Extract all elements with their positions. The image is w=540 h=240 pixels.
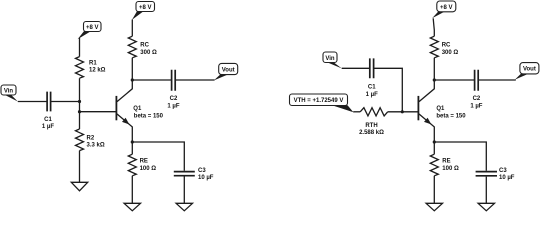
svg-text:1 µF: 1 µF [167,103,179,109]
svg-text:RE: RE [442,159,450,165]
svg-text:+8 V: +8 V [139,5,152,11]
svg-text:C3: C3 [198,168,206,174]
svg-text:Vout: Vout [523,67,536,73]
svg-text:R2: R2 [87,136,95,142]
svg-text:Vin: Vin [4,89,14,95]
svg-text:300 Ω: 300 Ω [140,50,157,56]
svg-text:VTH = +1.72549 V: VTH = +1.72549 V [294,98,344,104]
svg-text:10 µF: 10 µF [198,175,214,181]
svg-text:100 Ω: 100 Ω [442,166,459,172]
svg-text:RC: RC [140,43,149,49]
svg-text:RC: RC [442,43,451,49]
svg-text:1 µF: 1 µF [42,124,54,130]
svg-text:R1: R1 [89,61,97,67]
svg-text:RE: RE [140,159,148,165]
svg-text:2.588 kΩ: 2.588 kΩ [359,130,384,136]
svg-text:12 kΩ: 12 kΩ [89,68,106,74]
svg-text:Q1: Q1 [436,106,445,112]
svg-text:beta = 150: beta = 150 [436,114,466,120]
svg-text:+8 V: +8 V [440,5,453,11]
svg-text:RTH: RTH [365,123,377,129]
svg-text:C3: C3 [499,168,507,174]
svg-text:Vout: Vout [222,67,235,73]
svg-text:1 µF: 1 µF [366,92,378,98]
svg-text:1 µF: 1 µF [470,103,482,109]
svg-text:C1: C1 [368,85,376,91]
svg-text:C2: C2 [170,96,178,102]
svg-text:Vin: Vin [325,56,335,62]
svg-text:Q1: Q1 [133,106,142,112]
svg-text:100 Ω: 100 Ω [140,166,157,172]
svg-text:+8 V: +8 V [86,25,99,31]
svg-text:300 Ω: 300 Ω [442,50,459,56]
svg-text:C1: C1 [44,117,52,123]
svg-text:C2: C2 [473,96,481,102]
svg-text:beta = 150: beta = 150 [134,114,164,120]
svg-text:3.3 kΩ: 3.3 kΩ [87,143,105,149]
svg-text:10 µF: 10 µF [499,175,515,181]
